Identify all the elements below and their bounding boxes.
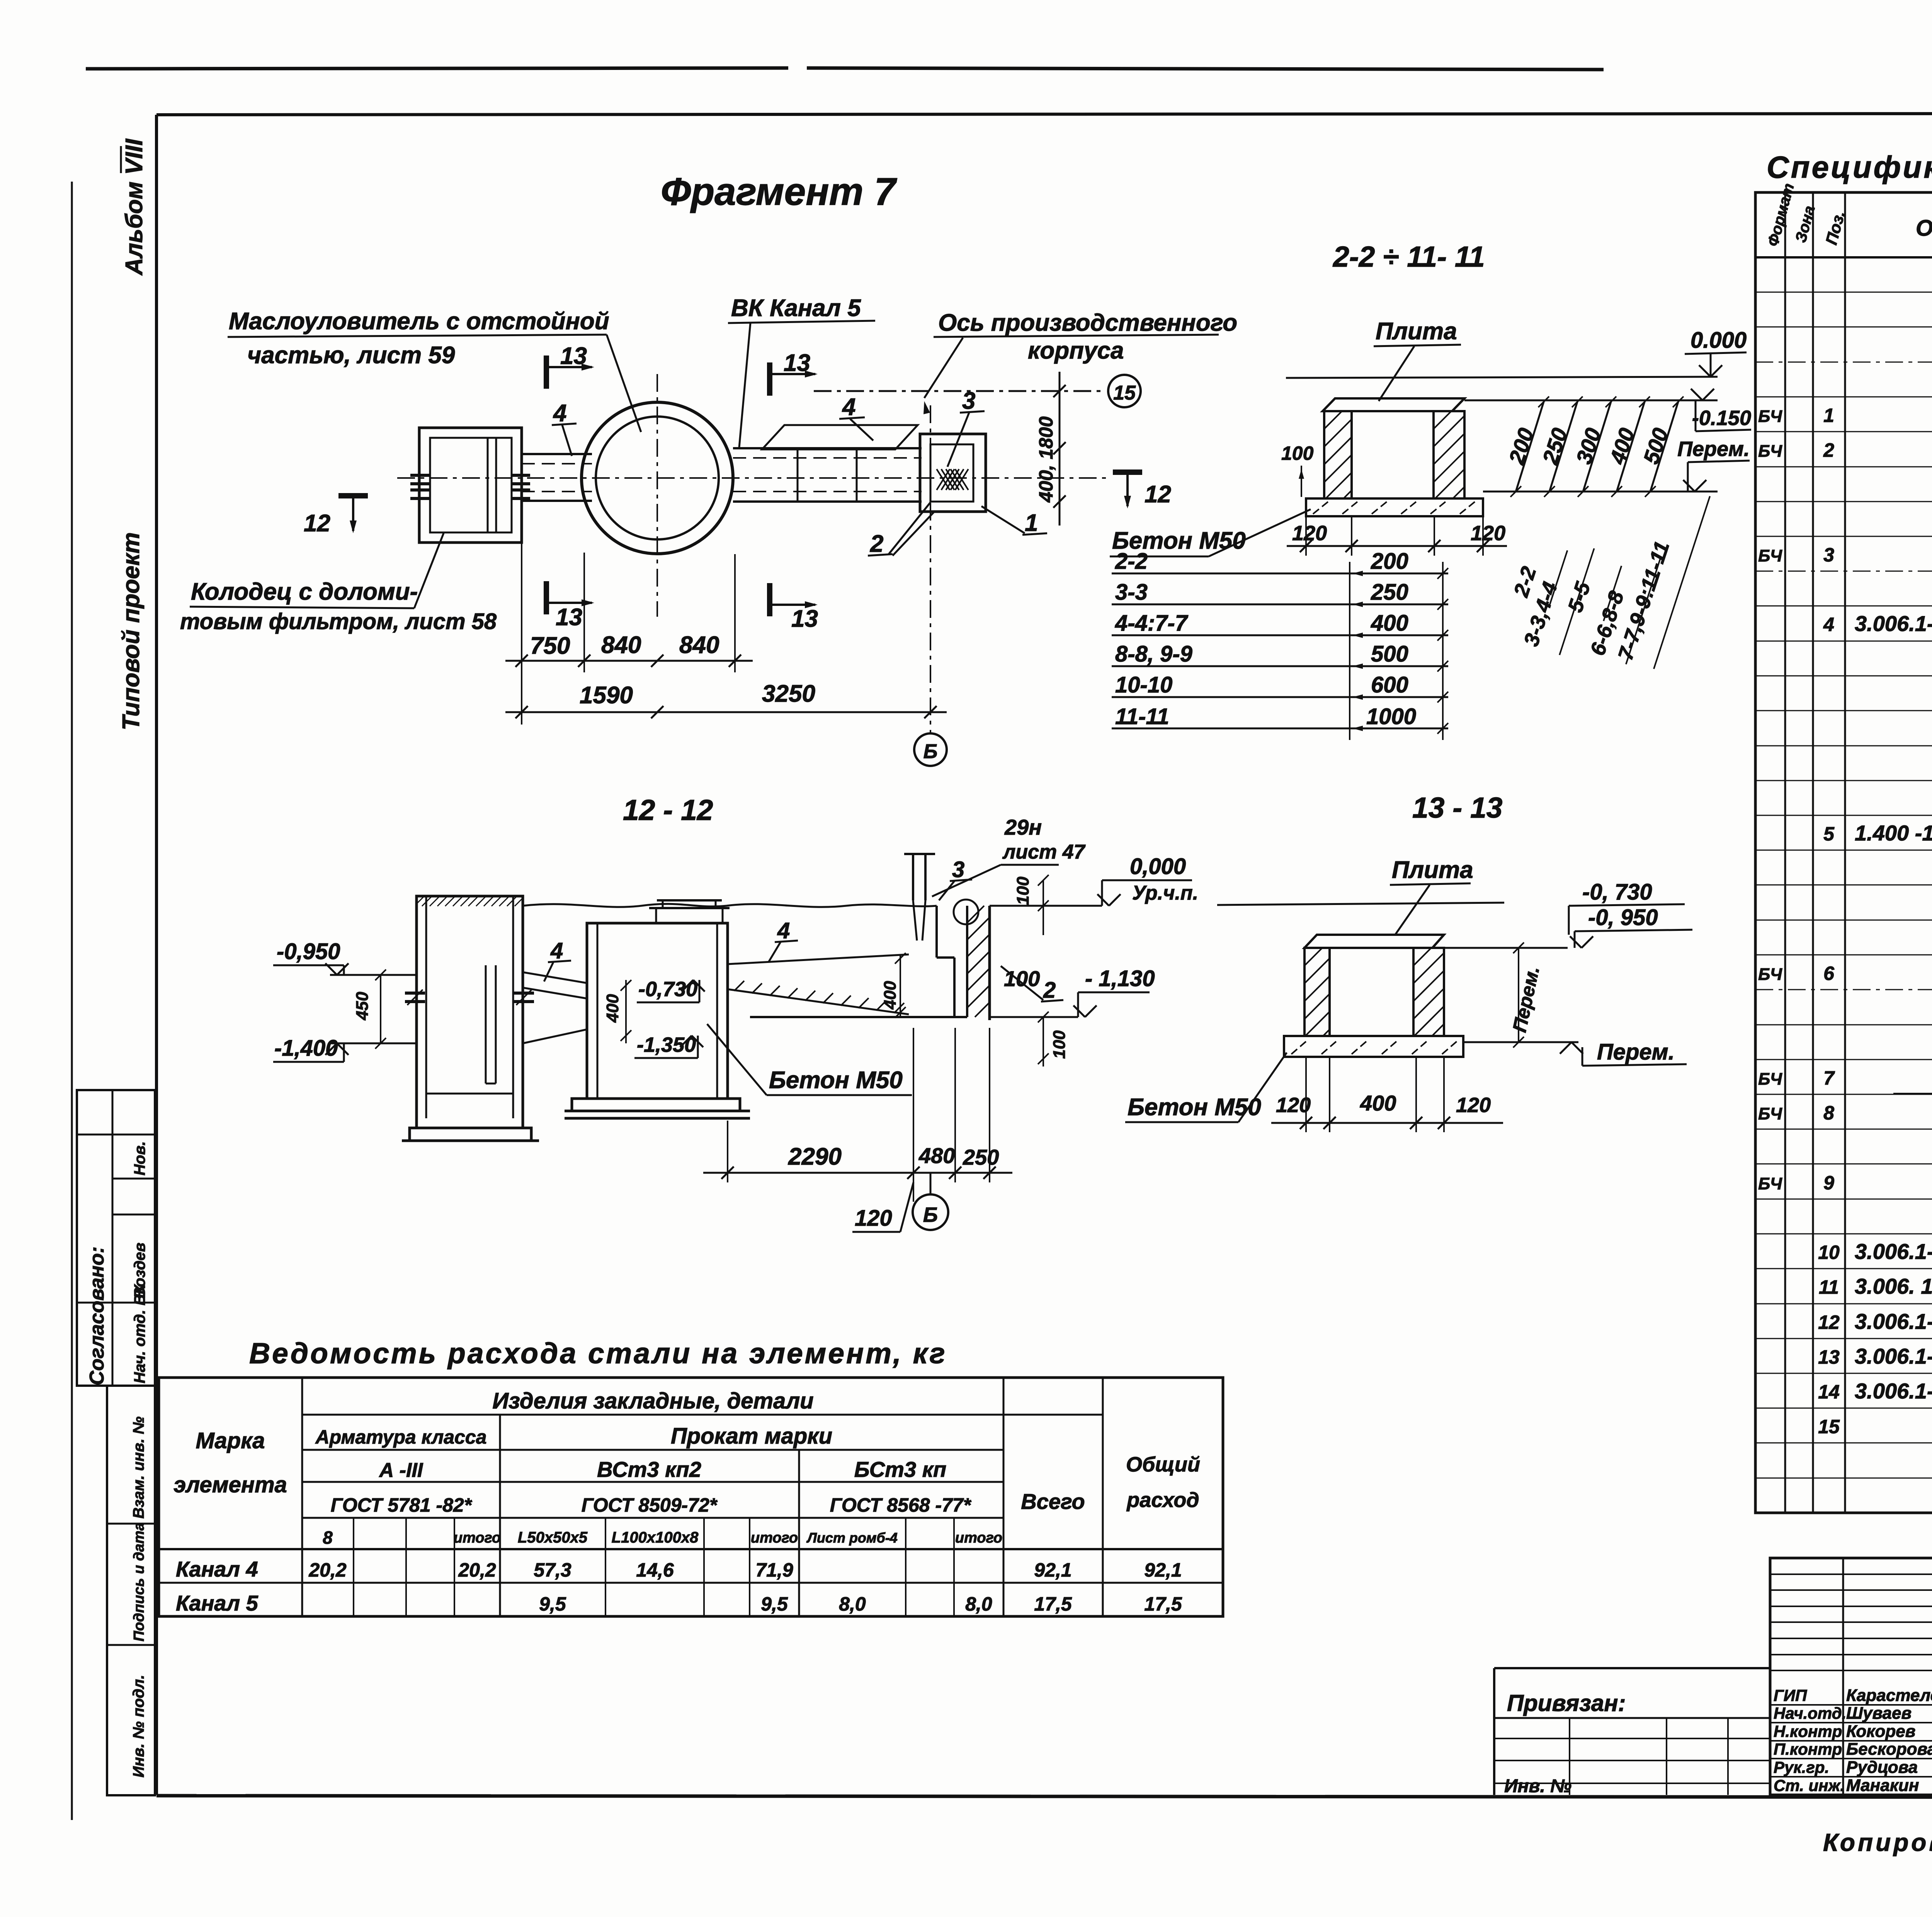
svg-text:14: 14 bbox=[1818, 1381, 1840, 1403]
svg-text:3.006.1-2/82, вып. 1-2: 3.006.1-2/82, вып. 1-2 bbox=[1855, 1379, 1932, 1403]
plan: main horizontal axis bbox=[397, 477, 1108, 479]
svg-text:расход: расход bbox=[1126, 1488, 1199, 1512]
svg-text:8: 8 bbox=[323, 1527, 333, 1548]
svg-text:1: 1 bbox=[1025, 510, 1038, 536]
plan: outlet box right bbox=[920, 434, 986, 512]
left trim line bbox=[71, 182, 73, 1820]
svg-text:120: 120 bbox=[855, 1206, 892, 1231]
svg-text:8-8, 9-9: 8-8, 9-9 bbox=[1115, 641, 1192, 667]
svg-text:12: 12 bbox=[1818, 1311, 1840, 1333]
svg-text:2-2: 2-2 bbox=[1115, 549, 1148, 574]
steel table horizontals bbox=[302, 1414, 1103, 1416]
svg-text:Типовой проект: Типовой проект bbox=[118, 532, 145, 730]
svg-text:Б: Б bbox=[923, 1203, 938, 1226]
svg-text:Согласовано:: Согласовано: bbox=[86, 1247, 108, 1385]
svg-text:Подпись и дата: Подпись и дата bbox=[131, 1522, 147, 1641]
svg-text:Б: Б bbox=[923, 740, 938, 763]
svg-text:Маслоуловитель с отстойной: Маслоуловитель с отстойной bbox=[229, 308, 609, 335]
svg-text:15: 15 bbox=[1818, 1416, 1840, 1437]
svg-text:3.006.1-2/82, вып. 1-2: 3.006.1-2/82, вып. 1-2 bbox=[1855, 1344, 1932, 1368]
section marker 13 bottom-left bbox=[544, 581, 549, 614]
svg-text:4-4:7-7: 4-4:7-7 bbox=[1115, 611, 1189, 636]
svg-text:Привязан:: Привязан: bbox=[1507, 1690, 1626, 1716]
plan: vertical centerline through outlet bbox=[930, 405, 931, 732]
svg-text:БСт3 кп: БСт3 кп bbox=[854, 1457, 946, 1482]
svg-text:Бескоровайный: Бескоровайный bbox=[1846, 1740, 1932, 1759]
svg-text:ГОСТ 8509-72*: ГОСТ 8509-72* bbox=[582, 1494, 718, 1516]
svg-text:Ведомость расхода стали н: Ведомость расхода стали на элемент, кг bbox=[249, 1337, 947, 1369]
svg-text:БЧ: БЧ bbox=[1758, 1104, 1782, 1123]
svg-text:ГОСТ 8568 -77*: ГОСТ 8568 -77* bbox=[830, 1494, 972, 1516]
axis bubble Б (12-12) bbox=[913, 1194, 948, 1230]
svg-text:Рудцова: Рудцова bbox=[1846, 1758, 1918, 1777]
svg-text:итого: итого bbox=[751, 1530, 798, 1546]
svg-text:840: 840 bbox=[601, 632, 641, 658]
12-12 channel between tanks bbox=[523, 972, 587, 983]
svg-text:БЧ: БЧ bbox=[1758, 1070, 1782, 1089]
svg-text:4: 4 bbox=[777, 918, 790, 943]
svg-text:- 1,130: - 1,130 bbox=[1085, 966, 1155, 991]
plan: channel from well to catcher bbox=[522, 453, 592, 455]
svg-text:Перем.: Перем. bbox=[1597, 1039, 1675, 1065]
svg-text:2: 2 bbox=[1043, 978, 1056, 1003]
section marker 13 top-right bbox=[767, 362, 772, 396]
title block: signature table bbox=[1770, 1558, 1932, 1795]
svg-text:4: 4 bbox=[1823, 614, 1834, 635]
12-12 level line at ground bbox=[990, 905, 1102, 907]
svg-text:Рук.гр.: Рук.гр. bbox=[1774, 1758, 1829, 1776]
left strip: Взам.инв/Подпись/Инв boxes bbox=[107, 1386, 155, 1795]
svg-text:-1,350: -1,350 bbox=[637, 1033, 696, 1056]
svg-text:частью, лист 59: частью, лист 59 bbox=[247, 342, 455, 369]
svg-text:12: 12 bbox=[304, 510, 330, 537]
2-2 top reference line bbox=[1464, 400, 1718, 401]
svg-text:Фрагмент 7: Фрагмент 7 bbox=[661, 170, 897, 213]
svg-text:Бетон М50: Бетон М50 bbox=[769, 1067, 903, 1094]
12-12 middle tank outline bbox=[587, 923, 728, 1099]
svg-text:250: 250 bbox=[963, 1145, 999, 1169]
svg-text:Ось производственного: Ось производственного bbox=[938, 310, 1237, 336]
plan: catcher vertical centerline bbox=[656, 374, 658, 617]
steel table verticals bbox=[301, 1378, 303, 1616]
svg-text:2: 2 bbox=[1823, 439, 1834, 461]
svg-text:Взам. инв. №: Взам. инв. № bbox=[130, 1417, 147, 1519]
plan: oil catcher inner ring bbox=[596, 417, 719, 539]
svg-text:Плита: Плита bbox=[1376, 318, 1457, 345]
plan: oil catcher outer ring bbox=[582, 402, 733, 554]
plan: cover plate parallelogram bbox=[762, 425, 918, 449]
svg-text:500: 500 bbox=[1371, 641, 1408, 667]
12-12 right channel floor slope bbox=[728, 989, 909, 1014]
svg-text:Нов.: Нов. bbox=[131, 1141, 148, 1175]
13-13 cover plate bbox=[1304, 935, 1444, 948]
12-12 left tank inner water line bbox=[426, 1093, 513, 1095]
12-12 ground wavy line bbox=[523, 904, 937, 907]
svg-text:57,3: 57,3 bbox=[534, 1559, 571, 1581]
leader arrow to axis bbox=[924, 338, 963, 398]
svg-text:13: 13 bbox=[556, 604, 582, 631]
spec table header row bbox=[1755, 256, 1932, 259]
section marker 12 left bbox=[338, 493, 368, 498]
svg-text:лист 47: лист 47 bbox=[1002, 841, 1086, 863]
svg-text:400: 400 bbox=[881, 981, 900, 1010]
svg-text:L50х50х5: L50х50х5 bbox=[518, 1529, 588, 1546]
svg-text:92,1: 92,1 bbox=[1034, 1559, 1071, 1581]
spec table column lines bbox=[1784, 192, 1786, 1513]
svg-text:1.400 -15, вып. 1: 1.400 -15, вып. 1 bbox=[1855, 821, 1932, 845]
svg-text:итого: итого bbox=[454, 1530, 501, 1546]
svg-text:Изделия закладные, детали: Изделия закладные, детали bbox=[492, 1388, 813, 1414]
svg-text:-1,400: -1,400 bbox=[274, 1036, 338, 1061]
svg-text:Альбом VIII: Альбом VIII bbox=[121, 138, 148, 276]
svg-text:БЧ: БЧ bbox=[1758, 1174, 1782, 1193]
spec table outer box bbox=[1755, 192, 1932, 1513]
12-12 dim line 2290-480-250 bbox=[703, 1172, 1012, 1174]
svg-text:ГИП: ГИП bbox=[1774, 1686, 1807, 1704]
svg-text:П.контр: П.контр bbox=[1774, 1740, 1842, 1758]
svg-text:3: 3 bbox=[952, 857, 964, 882]
svg-text:840: 840 bbox=[679, 632, 719, 658]
svg-text:100: 100 bbox=[1014, 876, 1032, 905]
12-12 channel floor hatch ticks bbox=[734, 981, 744, 991]
2-2 cover plate bbox=[1323, 398, 1464, 411]
svg-text:600: 600 bbox=[1371, 672, 1408, 697]
2-2 lower reference line bbox=[1483, 491, 1718, 493]
svg-text:8,0: 8,0 bbox=[839, 1593, 866, 1615]
12-12 middle tank base bbox=[572, 1099, 740, 1111]
svg-text:Манакин: Манакин bbox=[1846, 1776, 1919, 1795]
svg-text:Канал 5: Канал 5 bbox=[176, 1591, 259, 1615]
svg-text:L100х100х8: L100х100х8 bbox=[612, 1529, 699, 1546]
section marker 13 top-left bbox=[544, 356, 549, 389]
svg-text:3.006.1- 2/82, вып. 1-2: 3.006.1- 2/82, вып. 1-2 bbox=[1855, 611, 1932, 636]
svg-text:5: 5 bbox=[1823, 823, 1835, 845]
svg-text:92,1: 92,1 bbox=[1144, 1559, 1182, 1581]
2-2 slanted dims 200..500 bbox=[1516, 402, 1544, 492]
svg-text:11: 11 bbox=[1819, 1276, 1839, 1298]
12-12 left tank outline bbox=[417, 896, 523, 1128]
2-2 ladder verticals bbox=[1349, 562, 1350, 740]
svg-text:29н: 29н bbox=[1004, 815, 1042, 839]
svg-text:9,5: 9,5 bbox=[761, 1593, 788, 1615]
axis bubble Б (plan) bbox=[914, 733, 947, 766]
2-2 floor slab bbox=[1306, 498, 1483, 516]
title block: Привязан box bbox=[1494, 1667, 1770, 1669]
svg-text:11-11: 11-11 bbox=[1115, 704, 1169, 729]
svg-text:400: 400 bbox=[1360, 1091, 1396, 1115]
svg-text:БЧ: БЧ bbox=[1758, 546, 1782, 565]
top binding rule line bbox=[86, 68, 788, 69]
svg-text:10: 10 bbox=[1818, 1242, 1840, 1263]
svg-text:Инв. №: Инв. № bbox=[1504, 1776, 1571, 1796]
13-13 level line top bbox=[1444, 947, 1568, 949]
svg-text:Кокорев: Кокорев bbox=[1846, 1722, 1915, 1741]
svg-text:-0, 950: -0, 950 bbox=[1588, 905, 1658, 930]
plan dim line 750-840-840 bbox=[505, 660, 753, 662]
leader to oil catcher bbox=[607, 335, 641, 432]
svg-text:1590: 1590 bbox=[580, 682, 633, 709]
svg-text:Н.контр: Н.контр bbox=[1774, 1722, 1842, 1740]
svg-text:Нач. отд. ВК: Нач. отд. ВК bbox=[131, 1284, 148, 1383]
svg-text:400: 400 bbox=[1371, 611, 1408, 636]
svg-text:ВК Канал 5: ВК Канал 5 bbox=[731, 295, 861, 321]
svg-text:120: 120 bbox=[1456, 1094, 1491, 1117]
svg-text:400: 400 bbox=[603, 994, 622, 1023]
svg-text:200: 200 bbox=[1371, 549, 1408, 574]
svg-text:1000: 1000 bbox=[1366, 704, 1416, 729]
13-13 top reference line bbox=[1217, 903, 1504, 905]
svg-text:1: 1 bbox=[1823, 405, 1834, 426]
svg-text:4: 4 bbox=[550, 938, 563, 963]
svg-text:Общий: Общий bbox=[1126, 1453, 1200, 1476]
svg-text:400, 1800: 400, 1800 bbox=[1035, 416, 1057, 503]
svg-text:0.000: 0.000 bbox=[1690, 328, 1747, 353]
svg-text:13: 13 bbox=[791, 606, 818, 632]
svg-text:элемента: элемента bbox=[173, 1472, 287, 1497]
12-12 floor line right bbox=[750, 1016, 967, 1018]
svg-text:71,9: 71,9 bbox=[755, 1559, 793, 1581]
spec table row grid bbox=[1755, 292, 1932, 293]
svg-text:Канал 4: Канал 4 bbox=[176, 1557, 258, 1581]
svg-text:9,5: 9,5 bbox=[539, 1593, 566, 1615]
svg-text:Карастелев: Карастелев bbox=[1846, 1686, 1932, 1705]
svg-text:14,6: 14,6 bbox=[636, 1559, 674, 1581]
12-12 right channel top line bbox=[728, 954, 909, 964]
svg-text:8,0: 8,0 bbox=[965, 1593, 992, 1615]
svg-text:Нач.отд.: Нач.отд. bbox=[1774, 1704, 1846, 1722]
svg-text:Обозначение: Обозначение bbox=[1916, 216, 1932, 241]
svg-text:20,2: 20,2 bbox=[458, 1559, 496, 1581]
plan: channel joints bbox=[797, 448, 799, 502]
12-12 middle tank lid bbox=[655, 908, 657, 923]
2-2 zero level line bbox=[1286, 377, 1718, 378]
svg-text:250: 250 bbox=[1371, 580, 1408, 605]
svg-text:Инв. № подл.: Инв. № подл. bbox=[130, 1675, 147, 1778]
plan: well bolts right bbox=[511, 474, 530, 477]
12-12 slope under channel bbox=[523, 1029, 587, 1043]
13-13 left wall hatched bbox=[1304, 948, 1330, 1036]
svg-text:итого: итого bbox=[955, 1530, 1002, 1546]
svg-text:2: 2 bbox=[870, 531, 883, 557]
2-2 depth ladder lines bbox=[1112, 573, 1448, 575]
svg-text:480: 480 bbox=[918, 1143, 955, 1168]
svg-text:Всего: Всего bbox=[1021, 1489, 1085, 1514]
svg-text:-0,950: -0,950 bbox=[277, 939, 340, 964]
svg-text:корпуса: корпуса bbox=[1028, 337, 1124, 364]
svg-text:8: 8 bbox=[1823, 1102, 1834, 1124]
svg-text:Ст. инж.: Ст. инж. bbox=[1774, 1776, 1845, 1795]
section marker 12 right bbox=[1113, 469, 1142, 475]
svg-text:2-2 ÷ 11- 11: 2-2 ÷ 11- 11 bbox=[1332, 240, 1485, 273]
12-12 left tank inner tube bbox=[485, 965, 487, 1084]
vertical dim 400,1800 at outlet bbox=[1059, 372, 1061, 526]
axis bubble 15 bbox=[1108, 375, 1141, 407]
plan: outlet box grate hatch bbox=[937, 469, 950, 490]
svg-text:15: 15 bbox=[1113, 382, 1136, 404]
svg-text:А -III: А -III bbox=[379, 1459, 423, 1482]
svg-text:12: 12 bbox=[1145, 481, 1171, 508]
13-13 right wall hatched bbox=[1413, 948, 1444, 1036]
2-2 right wall hatched bbox=[1434, 411, 1464, 498]
svg-text:3.006.1- 2/82, вып. 1-2: 3.006.1- 2/82, вып. 1-2 bbox=[1855, 1309, 1932, 1334]
leader to channel 5 bbox=[739, 323, 750, 447]
svg-text:Плита: Плита bbox=[1392, 857, 1473, 883]
12-12 detail bubble 2 bbox=[954, 900, 978, 924]
svg-text:ВСт3 кп2: ВСт3 кп2 bbox=[597, 1457, 701, 1482]
axis line of production building bbox=[814, 390, 1106, 392]
left strip: Согласовано box bbox=[77, 1090, 155, 1386]
svg-text:3-3: 3-3 bbox=[1115, 580, 1148, 605]
svg-text:13: 13 bbox=[560, 343, 587, 369]
12-12 level line -1130 bbox=[990, 1016, 1078, 1018]
svg-text:3: 3 bbox=[1823, 544, 1834, 566]
steel table outer box bbox=[159, 1378, 1223, 1616]
svg-text:БЧ: БЧ bbox=[1758, 965, 1782, 984]
svg-text:БЧ: БЧ bbox=[1758, 442, 1782, 461]
svg-text:10-10: 10-10 bbox=[1115, 672, 1172, 697]
svg-text:450: 450 bbox=[353, 992, 372, 1021]
svg-text:7: 7 bbox=[1823, 1067, 1835, 1089]
svg-text:ГОСТ 5781 -82*: ГОСТ 5781 -82* bbox=[331, 1494, 473, 1516]
svg-text:Марка: Марка bbox=[196, 1428, 265, 1453]
12-12 right wall with hatch bbox=[935, 906, 938, 958]
svg-text:3.006.1- 2/82, вып. 1-2: 3.006.1- 2/82, вып. 1-2 bbox=[1855, 1239, 1932, 1264]
svg-text:17,5: 17,5 bbox=[1034, 1593, 1072, 1615]
plan dim line 1590-3250 bbox=[505, 711, 947, 713]
svg-text:0,000: 0,000 bbox=[1130, 854, 1186, 879]
svg-text:100: 100 bbox=[1004, 966, 1040, 991]
svg-text:товым фильтром, лист 58: товым фильтром, лист 58 bbox=[180, 609, 497, 634]
svg-text:Перем.: Перем. bbox=[1677, 437, 1750, 461]
svg-text:3250: 3250 bbox=[762, 680, 815, 707]
svg-text:Лист ромб-4: Лист ромб-4 bbox=[806, 1530, 898, 1546]
sheet frame bbox=[156, 113, 1932, 115]
svg-text:БЧ: БЧ bbox=[1758, 407, 1782, 426]
plan: well bolts left bbox=[410, 474, 430, 477]
svg-text:13 - 13: 13 - 13 bbox=[1412, 791, 1503, 824]
svg-text:13: 13 bbox=[784, 350, 810, 376]
13-13 level line bottom bbox=[1463, 1041, 1578, 1043]
svg-text:Арматура класса: Арматура класса bbox=[315, 1426, 487, 1448]
svg-text:Колодец с доломи-: Колодец с доломи- bbox=[191, 578, 418, 605]
plan: channel 5 to the right bbox=[733, 447, 922, 449]
svg-text:6: 6 bbox=[1823, 963, 1835, 984]
svg-text:Спецификация каналов 4, 5: Спецификация каналов 4, 5 bbox=[1767, 150, 1932, 184]
svg-text:Копировал: Алехина: Копировал: Алехина bbox=[1823, 1829, 1932, 1856]
svg-text:-0, 730: -0, 730 bbox=[1582, 879, 1652, 905]
12-12 left tank base bbox=[410, 1128, 531, 1141]
svg-text:2290: 2290 bbox=[788, 1143, 842, 1170]
svg-text:-0.150: -0.150 bbox=[1692, 407, 1751, 430]
svg-text:4: 4 bbox=[842, 394, 855, 420]
svg-text:17,5: 17,5 bbox=[1144, 1593, 1182, 1615]
13-13 floor slab bbox=[1284, 1036, 1463, 1057]
12-12 drain pipe bbox=[912, 854, 914, 900]
12-12 left tank top hatch strip bbox=[417, 896, 424, 904]
2-2 left wall hatched bbox=[1324, 411, 1352, 498]
svg-text:Шуваев: Шуваев bbox=[1846, 1704, 1912, 1723]
svg-text:13: 13 bbox=[1818, 1346, 1840, 1368]
2-2 dim line under floor bbox=[1287, 545, 1507, 547]
svg-text:-0,730: -0,730 bbox=[638, 978, 697, 1001]
section marker 13 bottom-right bbox=[767, 583, 772, 616]
svg-text:20,2: 20,2 bbox=[308, 1559, 347, 1581]
plan: well with dolomite filter (left square) bbox=[419, 428, 522, 543]
svg-text:12 - 12: 12 - 12 bbox=[623, 794, 713, 826]
svg-text:4: 4 bbox=[553, 400, 566, 427]
svg-text:3.006. 1- 2/82, вып. 1-2: 3.006. 1- 2/82, вып. 1-2 bbox=[1855, 1274, 1932, 1298]
svg-text:Прокат марки: Прокат марки bbox=[671, 1424, 832, 1449]
svg-text:100: 100 bbox=[1281, 442, 1314, 464]
svg-text:Ур.ч.п.: Ур.ч.п. bbox=[1132, 882, 1198, 904]
svg-text:100: 100 bbox=[1050, 1030, 1069, 1059]
12-12 left tank bolts bbox=[405, 992, 425, 995]
svg-text:750: 750 bbox=[530, 633, 570, 659]
svg-text:9: 9 bbox=[1823, 1172, 1834, 1194]
svg-text:3: 3 bbox=[962, 388, 975, 414]
